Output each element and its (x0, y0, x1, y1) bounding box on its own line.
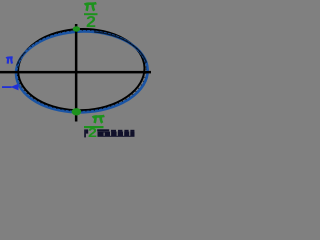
svg-text:2: 2 (86, 14, 96, 31)
svg-text:2: 2 (88, 125, 97, 139)
